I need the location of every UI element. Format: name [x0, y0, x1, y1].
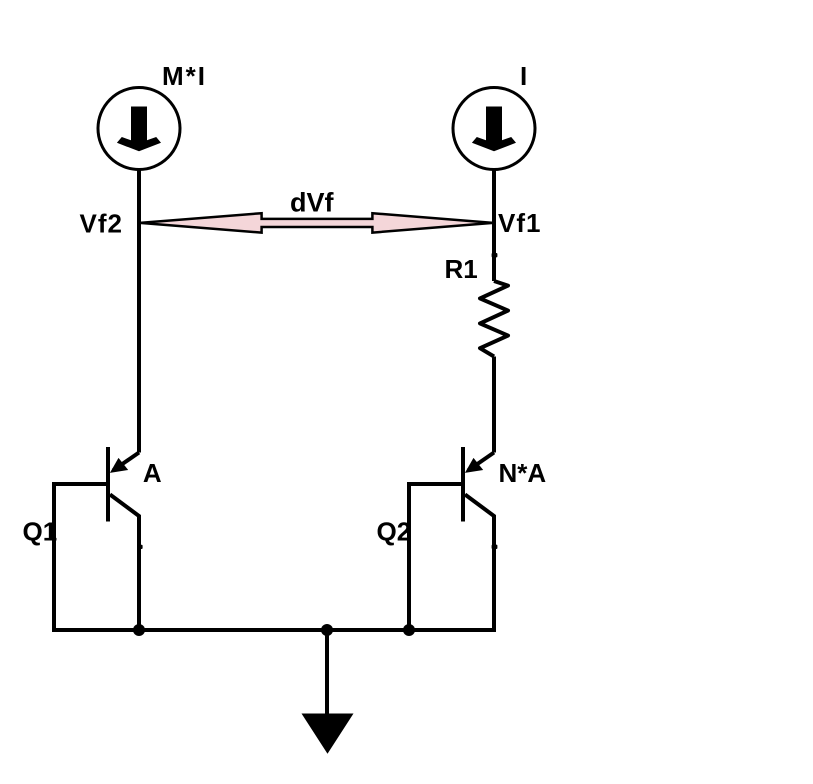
svg-text:Q2: Q2	[377, 517, 412, 547]
svg-text:A: A	[143, 458, 162, 488]
svg-text:M*I: M*I	[162, 61, 207, 91]
svg-text:N*A: N*A	[499, 458, 547, 488]
svg-text:Q1: Q1	[23, 517, 58, 547]
svg-text:R1: R1	[445, 254, 478, 284]
svg-text:dVf: dVf	[290, 188, 335, 218]
svg-text:Vf1: Vf1	[498, 208, 541, 238]
svg-text:Vf2: Vf2	[80, 208, 123, 238]
svg-text:I: I	[520, 61, 527, 91]
